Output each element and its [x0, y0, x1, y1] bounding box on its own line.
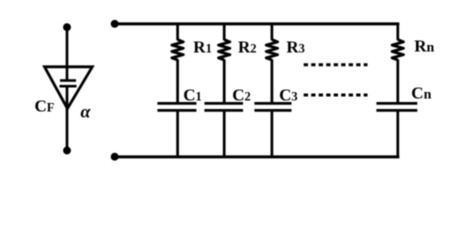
capacitor Cn: top plate: [376, 102, 417, 105]
svg-text:R2: R2: [238, 37, 257, 56]
continuation dashes between R3 and Rn: [304, 63, 368, 66]
wire: R1 to C1: [176, 59, 179, 103]
svg-text:Rn: Rn: [414, 37, 434, 56]
wire: top rail to resistor R1: [176, 24, 179, 40]
svg-text:C1: C1: [183, 85, 202, 104]
svg-text:R1: R1: [193, 37, 212, 56]
wire: R2 to C2: [223, 59, 226, 103]
wire: top-right corner to resistor Rn: [396, 23, 399, 41]
capacitor C3: top plate: [254, 102, 291, 105]
svg-text:R3: R3: [286, 37, 305, 56]
capacitor CF: bottom plate: [60, 85, 77, 88]
capacitor C2: bottom plate: [204, 109, 243, 112]
wire: top rail to resistor R3: [271, 24, 274, 40]
wire: Rn to Cn: [396, 59, 399, 103]
resistor R2: [219, 40, 230, 60]
capacitor Cn: bottom plate: [376, 109, 417, 112]
wire: R3 to C3: [271, 59, 274, 103]
svg-text:α: α: [81, 102, 92, 122]
capacitor C1: bottom plate: [157, 109, 196, 112]
svg-text:C2: C2: [232, 85, 251, 104]
resistor R1: [172, 40, 183, 60]
wire: C1 to bottom rail: [176, 110, 179, 156]
op-amp U1: triangle buffer (gain alpha): [45, 67, 93, 109]
wire: bottom rail: [115, 155, 400, 158]
wire: C3 to bottom rail: [271, 110, 274, 156]
node: bottom-left junction dot of ladder: [111, 153, 119, 161]
capacitor C1: top plate: [157, 102, 196, 105]
capacitor C3: bottom plate: [254, 109, 291, 112]
resistor Rn: [392, 40, 403, 60]
svg-text:Cn: Cn: [411, 84, 431, 103]
capacitor C2: top plate: [204, 102, 243, 105]
wire: Cn to bottom-right corner: [396, 110, 399, 158]
svg-text:C3: C3: [279, 85, 298, 104]
node: top terminal of alpha/CF branch: [63, 23, 71, 31]
wire: top rail to resistor R2: [223, 24, 226, 40]
svg-text:CF: CF: [35, 97, 55, 116]
node: bottom terminal of alpha/CF branch: [63, 147, 71, 155]
wire: top terminal down to CF top plate: [66, 27, 69, 80]
continuation dashes between C3 and Cn: [304, 94, 368, 97]
node: top-left junction dot of ladder: [111, 20, 119, 28]
wire: top rail: [115, 22, 400, 25]
wire: CF bottom plate through apex to bottom terminal: [66, 86, 69, 150]
wire: C2 to bottom rail: [223, 110, 226, 156]
resistor R3: [266, 40, 277, 60]
capacitor CF: top plate: [60, 79, 76, 82]
